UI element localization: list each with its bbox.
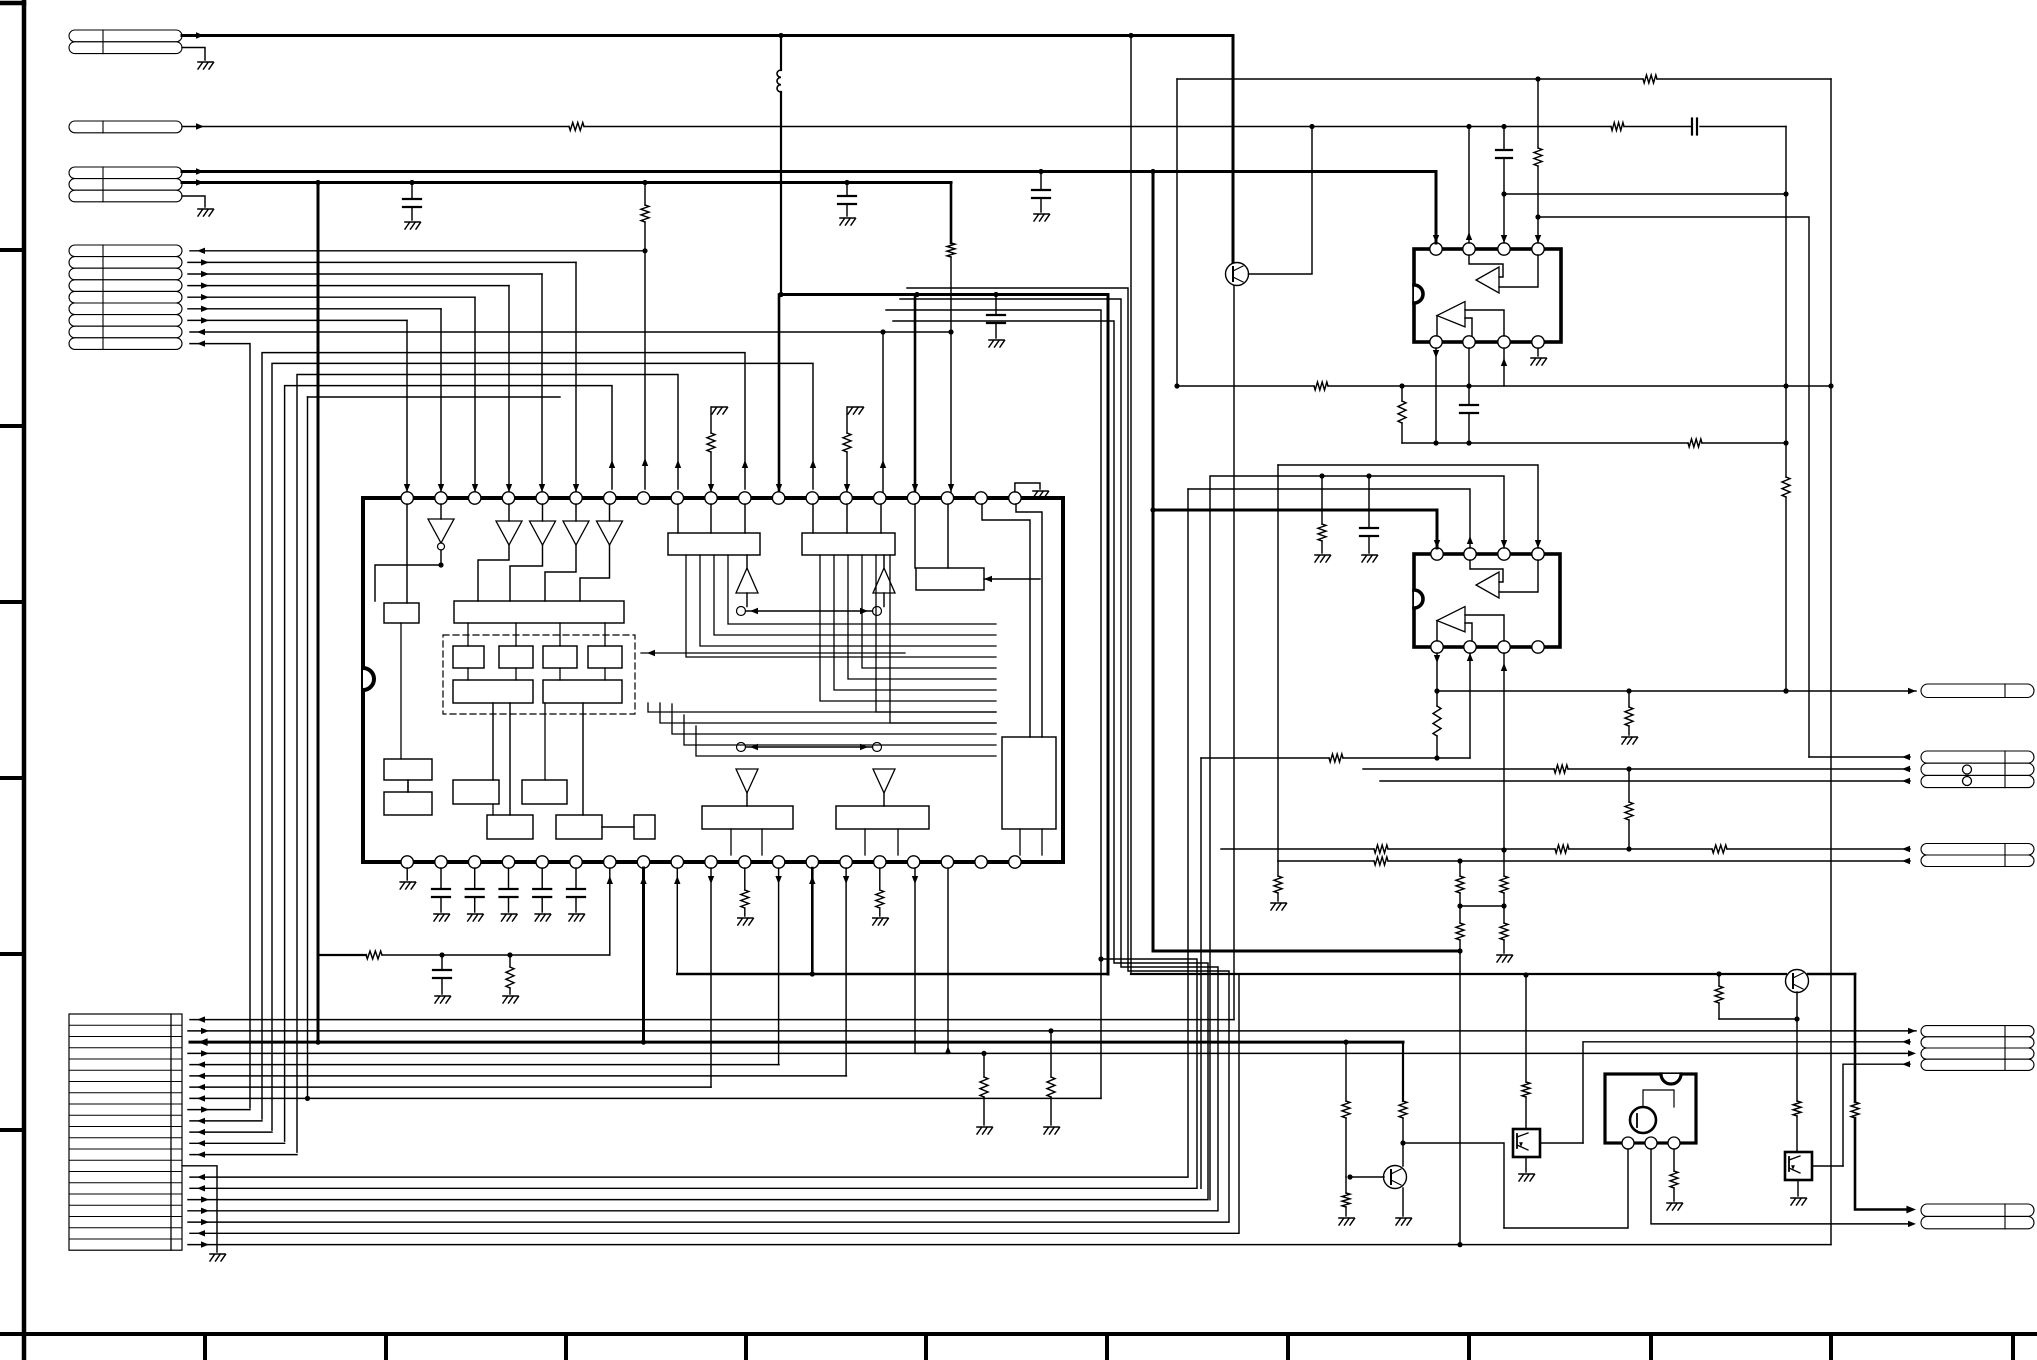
resistor R6 U1 pin11 bottom [744,868,746,890]
block B2 inside U1 [802,533,895,555]
capacitor C7 U1 pin4 bottom [508,868,510,889]
wire pin1 into block B5 [406,504,408,603]
node line y=611 with inverter bubbles [737,607,746,616]
buffer feeds [508,504,510,521]
block B12 small inside U1 [634,815,655,839]
column x=1346 with R22 R23 [1345,1042,1347,1101]
thick elbow x=1152 to resistor chain [1153,950,1460,953]
ground U1 pin1 bottom [406,868,408,880]
ground R13 [1622,736,1637,738]
vertical x=1177 [1176,79,1178,386]
wire CN8 row2 net y=861 [1278,860,1374,862]
block B13 right big inside U1 [1002,737,1056,829]
connector CN6 (1-pin) [1921,684,2034,698]
block B14 inside U1 [702,806,793,829]
wire U1 pin8 bottom thick [642,868,645,1042]
block B11 inside U1 [556,815,602,839]
wire U2 pin3 up with series cap [1503,127,1505,151]
ground C11 [1362,554,1377,556]
resistor R3 pin10 top to ground [707,433,715,452]
vertical x=1201 [1200,758,1202,1188]
resistor R20 IC4 pin3 [1673,1149,1675,1171]
resistor R1 from net y=182 down at x=645 [644,183,646,206]
IC4 internal transistor [1630,1107,1656,1133]
block B10 inside U1 [487,815,533,839]
wire U1 pin10 bottom [710,868,712,1087]
capacitor C1 on net y=182 at x=412 [411,183,413,200]
block B9 inside U1 [522,780,567,804]
U1 bottom internal verticals to pins [730,829,732,855]
IC U3 notch [1414,590,1423,608]
wire Q2-node to IC4 path [1403,1143,1504,1228]
block B6 B7 stems [400,623,402,759]
wire CN5 row1 [190,1019,1234,1021]
connector CN4 (9-pin) [69,245,182,257]
wires top pins 16-17 into block B3 [914,504,916,568]
transistor Q1 [1232,36,1235,264]
wire CN2 net y=126 [182,126,569,128]
connector CN2 (1-pin) [69,121,182,133]
IC4 pins [1622,1137,1634,1149]
wire CN5 row21 long power rail [188,1244,1831,1246]
resistor R7 U1 pin15 bottom [879,868,881,890]
node junction on CN1 net at x=781 [778,33,783,38]
thick net y=974 pin9 to x=1108 riser [677,973,1108,976]
IC U3 body [1414,554,1560,647]
ground U1 pin19 top-right [1015,483,1040,492]
wires CN4 rows down to IC top pins 1-6 [575,262,577,492]
block B6 inside U1 [384,759,432,780]
ground C2 [840,217,855,219]
resistor R-a on CN2 net [569,123,584,131]
wire U2 pin7 down [1503,348,1505,386]
wire CN4 row2 [188,261,576,263]
block B1 inside U1 [668,533,760,555]
Q3 base down [1796,992,1798,1101]
ground R11 [1315,554,1330,556]
ground U2 pin8 [1537,348,1539,356]
IC U2 pins [1430,243,1442,255]
Q2 emitter to ground [1402,1188,1404,1216]
digital transistor box Q4 [1513,1129,1540,1157]
wire CN5 row3 thick bus [190,1041,1403,1044]
buffer gates A2-A5 inside U1 [496,521,522,545]
net y=758 row [1201,757,1329,759]
Q2 collector [1402,1143,1404,1166]
U1 nested bus wires right half [686,555,996,657]
vertical x=1278 [1277,465,1279,861]
wire CN4 row9 to staircase [190,344,250,1108]
IC U1 body [363,498,1063,862]
resistor chain x=1504 [1500,876,1508,893]
net y=194 [1504,193,1786,195]
vertical x=1831 long [1830,79,1832,1245]
sub-block S1 [453,646,484,668]
wire CN4 row7 [188,319,407,321]
wire CN5 row14 to ground [182,1166,217,1252]
U1 extra weave wires [876,555,996,712]
ground CN3 [198,208,213,210]
IC U2 body [1414,249,1561,342]
triangle down A8 [736,769,758,793]
wire U1 pin12 bottom [778,868,780,1065]
junction dots on CN2 net [1309,124,1314,129]
Q5 output right [1812,1165,1843,1167]
wire CN5 row5 to U1 pin12 bottom [190,1064,779,1066]
wires top pins 18-19 to block B13 [982,504,1030,737]
resistor R8 on net y=79 [1643,75,1657,83]
resistor R23 lower [1342,1193,1350,1207]
wire CN5 row18 bundle [188,299,1218,1211]
ground C1 [405,221,420,223]
wire U1 pin7 bottom from net y=955 [609,868,611,955]
connector CN7 (3-pin) [1921,751,2034,763]
block B15 inside U1 [836,806,929,829]
capacitor C11 tap on y=476 [1368,476,1370,528]
wire U2 pin2 up [1468,127,1470,244]
net y=955 with resistor [318,954,366,956]
connector CN1 (2-pin) [69,30,182,42]
IC U1 bottom pins [401,856,413,868]
wire U3 pin2 up-left [1188,489,1470,548]
sub-block S6 [543,680,622,703]
resistor R24 tap on pin16 net [981,1051,986,1056]
capacitor C10 on net y=955 [441,955,443,970]
IC U1 top pins [401,492,413,504]
U1 internal wires top [440,504,442,519]
net y=691 to CN6 [1437,690,1916,692]
resistor R-b on CN2 net [1611,123,1624,131]
ground R15 [1271,902,1286,904]
wire CN8 row1 net y=849 [1221,848,1374,850]
digital transistor box Q5 [1785,1152,1812,1180]
capacitor C-a series on CN2 net [1691,119,1693,135]
capacitor C3 electrolytic on net y=294 [993,292,998,297]
buffer A6 A7 stems [746,555,748,568]
wire U3 pin7 down [1503,653,1505,850]
wire CN5 row11 [190,1131,272,1133]
wire CN7 row1 [1809,756,1910,758]
sub-block S2 [499,646,533,668]
dashed group box inside U1 [443,635,635,714]
net y=217 to right [1538,217,1809,757]
inverter gate U2-B [1437,302,1465,327]
wires top pins into block B2 [812,504,814,533]
net y=79 top right [1177,78,1643,80]
connector CN8 (2-pin) [1921,844,2034,856]
ground R23 [1339,1217,1354,1219]
wire CN5 row9 [188,1109,250,1111]
wire U1 pin14 bottom [845,868,847,1076]
thick net y=294 to pin12/pin16 [781,293,1108,296]
capacitor C6 U1 pin3 bottom [474,868,476,889]
ground C3 [989,339,1004,341]
ground R24 [977,1126,992,1128]
resistor R4 pin14 top to ground [843,433,851,452]
wire CN5 row17 bundle [188,321,1208,1200]
thick feed U3 pin1 [1152,172,1155,952]
ground CN5 row14 [210,1253,225,1255]
wire CN5 row7 to U1 pin10 bottom [190,1086,711,1088]
wire U3 pin3 up-left [1210,476,1504,1200]
wire CN5 row8 riser x=1101 [1100,959,1102,1098]
wire CN5 row12 [190,1142,285,1144]
bias resistor R17 for Q3 [1716,971,1721,976]
wire x=1843 up to CN9 row4 [1843,1064,1910,1166]
resistor R5 on net y=955 [506,967,514,988]
inverter gate U3-A [1476,572,1499,598]
triangle down A9 [873,769,895,793]
4-pin connector CN9 [1921,1026,2034,1037]
2-pin connector CN10 [1921,1204,2034,1216]
wires top pins into block B1 [677,504,679,533]
wire CN3 pin1 thick net y=171 [182,170,1436,173]
wire U2 pin6 down with cap [1468,348,1470,405]
block B5 small inside U1 [384,603,419,623]
wire CN5 row8 [190,1097,1101,1099]
resistor R18 x=1797 [1793,1101,1801,1116]
sub-block S4 [588,646,622,668]
wire CN5 row20 [190,974,1239,1233]
ground R25 [1044,1126,1059,1128]
wire IC pin9top up-left staircase [297,375,678,1153]
node junction on CN1 net at x=1131 [1128,33,1133,38]
wire pin12 top feed [778,295,781,493]
wire IC pin15top to CN4 row8 [882,332,884,492]
wire CN5 row2 [188,1030,1916,1032]
wire CN4 row4 [188,285,509,287]
wire IC pin11top row [262,353,745,1119]
long vertical x=1234 from Q1 [1233,286,1235,1020]
Q4 ground [1525,1157,1527,1172]
wire IC4 pin1 to node [1504,1149,1628,1228]
border frame bottom edge [0,1332,2037,1336]
wire CN5 row6 to U1 pin14 bottom [190,1075,846,1077]
regulator IC4 body [1605,1074,1696,1143]
wire U2 pin5 down [1435,348,1437,443]
Q4 top resistor R19 [1525,975,1527,1082]
IC U1 notch [363,668,374,690]
thick vertical net x=318 [317,183,320,1043]
connector CN5 (21-pin) [69,1014,182,1250]
wire staircase x=307 down to lower connector row8 [308,396,561,398]
sub-block stubs [467,623,469,646]
resistor chain x=1460 [1456,876,1464,893]
wire CN4 row5 [188,296,475,298]
resistor R21 x=1403 [1399,1101,1407,1118]
connector CN3 (3-pin) [69,167,182,179]
resistor R13 on y=691 tap x=1629 [1628,691,1630,707]
CN7 twist circles [1963,765,1972,774]
capacitor C9 U1 pin6 bottom [575,868,577,889]
IC U3 pins [1431,548,1443,560]
wire U2 pin4 up with resistor [1537,166,1539,243]
wire CN4 row1 [190,250,645,252]
block B7 inside U1 [384,792,432,815]
resistor R11 tap on y=476 [1321,476,1323,524]
ground CN1 [198,61,213,63]
wire CN3 pin2 thick net y=182 [182,181,951,184]
border frame bottom ticks [203,1334,207,1360]
wire CN5 row15 [190,489,1188,1177]
buffer up A7 [873,568,895,593]
wire CN4 row3 [188,273,542,275]
wire CN5 row16 bundle [190,310,1197,1188]
wire CN5 row13 [190,1154,297,1156]
block B4 long inside U1 [454,601,624,623]
wire CN5 row10 [190,1120,262,1122]
ground C4 [1034,213,1049,215]
inverter gate U2-A [1476,267,1499,293]
arrow line into dashed box [641,652,905,654]
block B14 B15 stems [746,793,748,806]
resistor R16 on x=1855 [1851,1102,1859,1118]
inverter gate A1 inside U1 [428,519,454,543]
wire U3 pin4 up-left [1278,465,1538,548]
dashed box outputs down [492,703,494,780]
ground pin10 [712,406,727,408]
U1 nested wires mid [648,703,996,712]
wire U1 pin16 bottom to CN9 row3 [915,868,1910,1053]
wire U1 pin13 bottom thick [811,868,814,974]
wire U1 pin17 bottom column [947,868,949,1053]
thick column x=1403 from bus [1402,1042,1404,1101]
buffer up A6 [736,568,758,593]
node junction at (645,251) [642,248,647,253]
wire CN4 row8 [190,331,951,333]
wire CN4 row6 [188,308,441,310]
wire U2 pin1 feed thick [1435,172,1438,244]
transistor Q2 [1384,1166,1407,1189]
wire U3 pin5 down [1436,653,1438,691]
long vertical x=1131 from CN1 net [1130,36,1132,975]
net y=443 [1402,442,1688,444]
Q2 base [1350,1176,1384,1178]
wire U3 pin6 up from y=758 [1469,653,1471,758]
border frame left ticks [0,248,24,252]
wire x=645 down to IC pin8 top [644,251,646,489]
wire IC pin13top row [272,363,813,1130]
wire CN5 row4 to U1 pin17 bottom [188,1052,948,1054]
wire CN5 row19 bundle [188,288,1229,1222]
inductor L1 column x=781 [780,36,782,71]
capacitor C2 on net y=182 at x=847 [846,183,848,197]
net y=974 from x=1131 to Q3 [1131,973,1786,975]
Q5 to ground [1797,1180,1799,1196]
resistor R9 on x=1786 [1785,443,1787,477]
wire pin16 top feed [914,295,917,493]
vertical x=1402 with resistor R10 [1401,386,1403,401]
vertical x=1786 net [1785,127,1787,444]
wire IC4 pin2 to CN10 row2 [1651,1149,1910,1224]
sub-block S3 [543,646,577,668]
resistor R25 tap on CN5 row2 net [1048,1028,1053,1033]
border frame left edge [22,1,27,1360]
block B3 inside U1 [916,568,984,590]
wire CN1 pin1 main thick net [182,34,1233,37]
wire CN3 pin3 to ground [182,196,205,207]
capacitor C4 on CN3-pin1 net at x=1041 [1038,169,1043,174]
ground IC4 pin3 [1667,1202,1682,1204]
inverter gate U3-B [1437,607,1465,632]
resistor R2 thick-net tap at x=951 [950,183,953,244]
ground pin14 [848,406,863,408]
net y=386 [1177,385,1314,387]
capacitor C8 U1 pin5 bottom [541,868,543,889]
wire U1 pin9 bottom to thick net y=974 [676,868,678,974]
sub-block S5 [453,680,533,703]
block B8 inside U1 [453,780,499,804]
resistor R14 x=1629 between y769 and y849 [1628,769,1630,802]
wire CN9 row2 from digital box Q4 [1583,1042,1910,1143]
wire CN7 row3 [1380,780,1910,782]
wire CN1 pin2 to ground [182,48,205,61]
thick bus riser x=1108 [1107,295,1110,975]
node circles y=747 [737,743,746,752]
IC U2 notch [1414,285,1423,303]
wire CN7 row2 [1363,768,1554,770]
resistor R15 x=1278 to ground [1277,861,1279,876]
ground x=1504 [1497,954,1512,956]
wire IC pin7 up-left staircase [285,386,612,1142]
wire x=951 down to IC pin17 top [950,332,952,492]
capacitor C5 U1 pin2 bottom [440,868,442,889]
resistor R12 on x=1437 [1436,691,1438,706]
transistor Q3 on thick net [1786,970,1809,993]
